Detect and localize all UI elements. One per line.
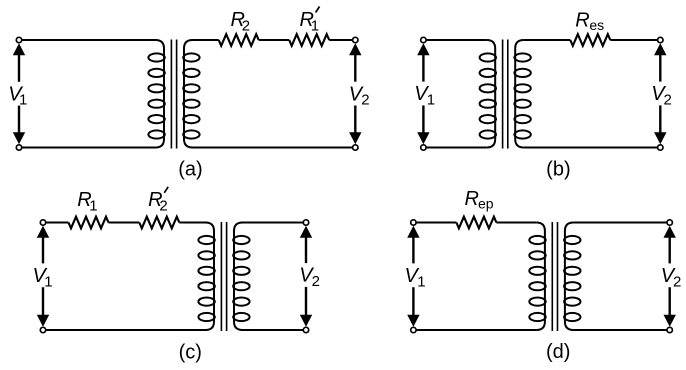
wire (a) top: R2 to R1p xyxy=(259,39,290,41)
terminal (d) top-right xyxy=(667,220,672,225)
transformer (a) primary winding xyxy=(156,40,165,148)
wire (c) top right xyxy=(243,222,307,224)
wire (a) top left xyxy=(19,39,156,41)
primary loop 5 of (d) xyxy=(529,298,545,306)
secondary loop 4 of (c) xyxy=(233,282,249,290)
primary loop 3 of (c) xyxy=(198,267,214,275)
transformer (b) primary winding xyxy=(487,40,496,148)
secondary loop 2 of (b) xyxy=(514,69,530,77)
svg-text:(d): (d) xyxy=(546,341,570,363)
svg-text:2: 2 xyxy=(673,273,681,290)
secondary loop 2 of (a) xyxy=(183,69,199,77)
secondary loop 1 of (d) xyxy=(564,236,580,244)
secondary loop 3 of (d) xyxy=(564,267,580,275)
terminal (a) top-right xyxy=(353,37,358,42)
resistor R1 (zigzag) xyxy=(69,217,109,229)
svg-text:2: 2 xyxy=(361,92,369,109)
terminal (c) bottom-left xyxy=(40,327,45,332)
wire (a) top: secondary to R2 xyxy=(193,39,219,41)
wire (c) top: R2p to primary xyxy=(179,222,205,224)
terminal (c) top-right xyxy=(303,220,308,225)
terminal (b) bottom-right xyxy=(658,145,663,150)
wire (b) bottom right xyxy=(524,147,661,149)
svg-text:(b): (b) xyxy=(546,158,570,180)
secondary loop 2 of (d) xyxy=(564,251,580,259)
primary loop 4 of (d) xyxy=(529,282,545,290)
secondary loop 3 of (b) xyxy=(514,84,530,92)
primary loop 3 of (a) xyxy=(148,84,164,92)
secondary loop 6 of (c) xyxy=(233,313,249,321)
svg-text:(a): (a) xyxy=(178,159,202,181)
secondary loop 3 of (a) xyxy=(183,84,199,92)
primary loop 1 of (a) xyxy=(148,53,164,61)
terminal (c) bottom-right xyxy=(303,327,308,332)
voltage arrow V1 (b) xyxy=(417,43,429,55)
secondary loop 5 of (b) xyxy=(514,115,530,123)
primary loop 1 of (c) xyxy=(198,236,214,244)
primary loop 6 of (b) xyxy=(480,130,496,138)
transformer (c) primary winding xyxy=(206,223,215,331)
secondary loop 4 of (b) xyxy=(514,100,530,108)
svg-text:2: 2 xyxy=(664,91,672,108)
secondary loop 5 of (d) xyxy=(564,298,580,306)
primary loop 6 of (c) xyxy=(198,313,214,321)
secondary loop 5 of (a) xyxy=(183,115,199,123)
terminal (a) bottom-left xyxy=(16,145,21,150)
svg-text:R: R xyxy=(575,9,589,31)
svg-text:2: 2 xyxy=(159,198,167,215)
transformer (d) primary winding xyxy=(536,223,545,331)
svg-text:es: es xyxy=(589,17,604,33)
transformer (c) secondary winding xyxy=(234,223,243,331)
resistor Res (zigzag) xyxy=(570,34,610,46)
primary loop 6 of (d) xyxy=(529,313,545,321)
primary loop 5 of (c) xyxy=(198,298,214,306)
transformer (a) secondary winding xyxy=(184,40,193,148)
secondary loop 6 of (d) xyxy=(564,313,580,321)
transformer (c) core lines xyxy=(220,222,222,331)
secondary loop 3 of (c) xyxy=(233,267,249,275)
primary loop 4 of (b) xyxy=(480,100,496,108)
terminal (b) bottom-left xyxy=(421,145,426,150)
terminal (d) bottom-left xyxy=(411,327,416,332)
transformer (b) core lines xyxy=(502,40,504,149)
transformer (a) core lines xyxy=(170,40,172,149)
terminal (b) top-left xyxy=(421,37,426,42)
resistor R2&#8242; (zigzag) xyxy=(139,217,179,229)
secondary loop 4 of (a) xyxy=(183,100,199,108)
voltage arrow V2 (a) xyxy=(349,43,361,55)
wire (a) top: R1p to terminal xyxy=(329,39,355,41)
primary loop 4 of (c) xyxy=(198,282,214,290)
primary loop 3 of (d) xyxy=(529,267,545,275)
resistor Rep (zigzag) xyxy=(456,217,496,229)
secondary loop 2 of (c) xyxy=(233,251,249,259)
svg-text:R: R xyxy=(465,188,479,210)
svg-text:1: 1 xyxy=(89,198,97,215)
svg-text:1: 1 xyxy=(417,273,425,290)
svg-text:1: 1 xyxy=(44,273,52,290)
voltage arrow V2 (b) xyxy=(654,43,666,55)
wire (a) bottom left xyxy=(19,147,156,149)
wire (c) bottom right xyxy=(243,329,307,331)
voltage arrow V2 (d) xyxy=(664,226,676,238)
terminal (d) top-left xyxy=(411,220,416,225)
transformer (d) core lines xyxy=(551,222,553,331)
svg-text:2: 2 xyxy=(312,273,320,290)
terminal (b) top-right xyxy=(658,37,663,42)
terminal (a) bottom-right xyxy=(353,145,358,150)
resistor R1&#8242; (zigzag) xyxy=(289,34,329,46)
svg-text:(c): (c) xyxy=(179,341,202,363)
secondary loop 5 of (c) xyxy=(233,298,249,306)
wire (c) top: R1 to R2p xyxy=(109,222,140,224)
wire (b) bottom left xyxy=(423,147,486,149)
wire (c) top: terminal to R1 xyxy=(43,222,69,224)
prime mark on R2&#8242; xyxy=(164,187,168,193)
secondary loop 1 of (a) xyxy=(183,53,199,61)
secondary loop 1 of (b) xyxy=(514,53,530,61)
wire (d) top: terminal to Rep xyxy=(413,222,456,224)
transformer (b) secondary winding xyxy=(515,40,524,148)
primary loop 4 of (a) xyxy=(148,100,164,108)
primary loop 3 of (b) xyxy=(480,84,496,92)
voltage arrow V1 (a) xyxy=(13,43,25,55)
wire (d) bottom right xyxy=(573,329,669,331)
voltage arrow V1 (d) xyxy=(407,226,419,238)
svg-text:2: 2 xyxy=(242,17,250,34)
primary loop 2 of (c) xyxy=(198,251,214,259)
wire (d) top: Rep to primary xyxy=(496,222,536,224)
secondary loop 6 of (a) xyxy=(183,130,199,138)
primary loop 5 of (a) xyxy=(148,115,164,123)
voltage arrow V2 (c) xyxy=(300,226,312,238)
secondary loop 4 of (d) xyxy=(564,282,580,290)
secondary loop 1 of (c) xyxy=(233,236,249,244)
terminal (a) top-left xyxy=(16,37,21,42)
wire (b) top: secondary to Res xyxy=(524,39,571,41)
secondary loop 6 of (b) xyxy=(514,130,530,138)
primary loop 2 of (b) xyxy=(480,69,496,77)
voltage arrow V1 (c) xyxy=(37,226,49,238)
svg-text:1: 1 xyxy=(311,17,319,34)
wire (d) top right xyxy=(573,222,669,224)
primary loop 1 of (b) xyxy=(480,53,496,61)
wire (d) bottom left xyxy=(413,329,536,331)
wire (a) bottom right xyxy=(193,147,356,149)
transformer (d) secondary winding xyxy=(565,223,574,331)
primary loop 2 of (a) xyxy=(148,69,164,77)
terminal (c) top-left xyxy=(40,220,45,225)
wire (b) top left xyxy=(423,39,486,41)
primary loop 6 of (a) xyxy=(148,130,164,138)
prime mark on R1&#8242; xyxy=(316,7,320,13)
svg-text:1: 1 xyxy=(19,92,27,109)
svg-text:1: 1 xyxy=(427,91,435,108)
terminal (d) bottom-right xyxy=(667,327,672,332)
wire (b) top: Res to terminal xyxy=(610,39,660,41)
primary loop 1 of (d) xyxy=(529,236,545,244)
primary loop 5 of (b) xyxy=(480,115,496,123)
primary loop 2 of (d) xyxy=(529,251,545,259)
wire (c) bottom left xyxy=(43,329,206,331)
svg-text:ep: ep xyxy=(478,195,494,211)
resistor R2 (zigzag) xyxy=(219,34,259,46)
